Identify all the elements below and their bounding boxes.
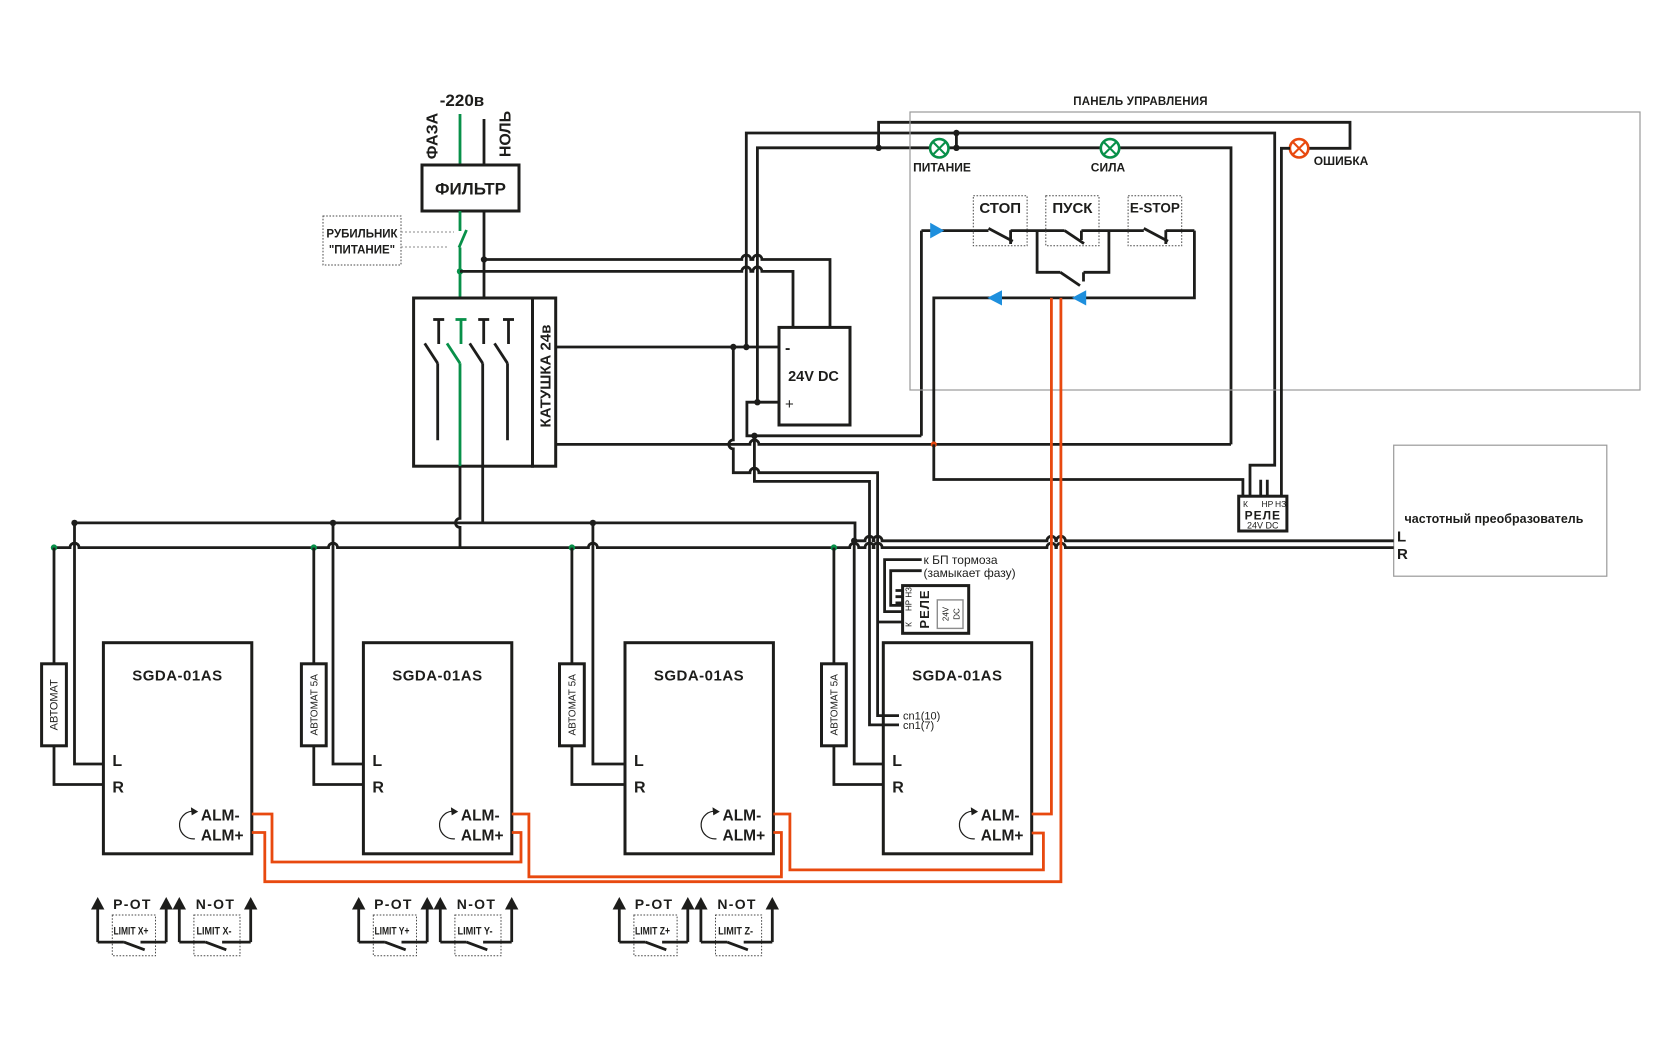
leader dotted lines to switch (401, 232, 454, 247)
wire brake relay NZ leader (885, 560, 922, 612)
circuit breaker AVTOMAT drive 1 (42, 548, 67, 746)
svg-text:РУБИЛЬНИК: РУБИЛЬНИК (326, 229, 398, 241)
wire L feed drive 4 (854, 541, 883, 764)
contact self-hold (NO) (1060, 272, 1083, 285)
arrow return 1 (blue left) (987, 290, 1002, 305)
label cn1(10) (903, 711, 940, 723)
wire phase input (459, 114, 462, 165)
svg-text:СИЛА: СИЛА (1091, 161, 1126, 175)
svg-text:SGDA-01AS: SGDA-01AS (392, 668, 482, 685)
junction minus rail B (743, 344, 749, 350)
node FAZA label (425, 112, 442, 159)
svg-text:R: R (372, 780, 384, 797)
junction minus rail A (730, 344, 736, 350)
filter box FILTR (422, 165, 519, 211)
contactor pole 3 (470, 320, 490, 467)
wire relay NZ to error lamp (1281, 148, 1290, 496)
ALM wire drive1- to drive2+ (252, 814, 521, 862)
arrow return 2 (blue left) (1072, 290, 1086, 305)
node NOL label (498, 111, 515, 157)
bus R (phase) (54, 543, 1394, 548)
svg-text:N-OT: N-OT (717, 896, 756, 912)
svg-text:SGDA-01AS: SGDA-01AS (912, 668, 1002, 685)
label cn1(7) (903, 720, 934, 732)
wire line A (error lamp loop) (879, 122, 1350, 148)
wire DC plus loop to chain feed (747, 402, 922, 436)
limit switch LIMIT Z- (694, 896, 779, 956)
svg-text:P-OT: P-OT (113, 896, 152, 912)
wire chain main line (921, 229, 988, 232)
svg-text:АВТОМАТ 5А: АВТОМАТ 5А (830, 674, 841, 736)
wire neutral through filter down (483, 211, 486, 298)
svg-text:LIMIT Z-: LIMIT Z- (718, 926, 753, 938)
wire cn1(7) (plus to drive4) (754, 436, 899, 725)
contactor pole 2 (447, 320, 467, 467)
svg-text:DC: DC (953, 608, 962, 620)
servo drive SGDA-01AS #1 (103, 643, 251, 854)
control panel border (910, 112, 1640, 390)
svg-text:ALM+: ALM+ (981, 828, 1024, 845)
svg-text:R: R (112, 780, 124, 797)
ALM wire drive3- to drive4+ (773, 814, 1043, 870)
svg-text:ОШИБКА: ОШИБКА (1314, 154, 1369, 168)
junction B link (953, 130, 959, 136)
label -220v (440, 91, 484, 110)
svg-text:L: L (372, 753, 382, 770)
svg-text:LIMIT X+: LIMIT X+ (113, 926, 148, 938)
svg-text:НР НЗ: НР НЗ (905, 587, 914, 611)
junction phase (green) (457, 268, 463, 274)
button E-STOP box (1128, 196, 1182, 246)
limit switch LIMIT X+ (91, 896, 173, 956)
wire to control chain (vertical feed) (920, 231, 923, 436)
circuit breaker AVTOMAT drive 4 (822, 548, 847, 746)
svg-text:НОЛЬ: НОЛЬ (498, 111, 515, 157)
ALM wire drive2- to drive3+ (512, 814, 782, 877)
wire contactor coil to line C (556, 440, 1231, 445)
wire phase below contactor to bus2 (456, 466, 461, 547)
panel title (1073, 96, 1207, 108)
svg-text:E-STOP: E-STOP (1130, 201, 1180, 216)
junction neutral (481, 256, 487, 262)
svg-text:LIMIT X-: LIMIT X- (197, 926, 232, 938)
indicator lamp PITANIE (930, 139, 948, 157)
wire neutral below contactor to bus1 (481, 466, 484, 523)
label PITANIE (913, 161, 971, 175)
contactor pole 4 (495, 320, 515, 441)
brake relay box (vertical) (903, 586, 969, 634)
svg-text:СТОП: СТОП (979, 200, 1021, 217)
svg-text:ALM-: ALM- (201, 808, 240, 825)
frequency converter box (1394, 445, 1607, 576)
svg-text:АВТОМАТ: АВТОМАТ (49, 679, 61, 730)
ALM wire drive1+ to panel (bottom bus) (252, 298, 1061, 882)
svg-text:АВТОМАТ 5А: АВТОМАТ 5А (310, 674, 321, 736)
svg-text:+: + (785, 396, 794, 413)
junction coil/chain (red) (931, 441, 937, 447)
svg-text:L: L (892, 753, 902, 770)
wire phase to PSU top (460, 267, 793, 328)
svg-text:LIMIT Z+: LIMIT Z+ (635, 926, 670, 938)
wire R feed drive 4 (834, 746, 883, 785)
indicator lamp OSHIBKA (1290, 139, 1308, 157)
svg-text:РЕЛЕ: РЕЛЕ (917, 589, 932, 628)
wire neutral to PSU top (484, 255, 830, 327)
bus L (neutral) (75, 523, 1394, 541)
svg-text:НР: НР (1262, 499, 1274, 509)
svg-text:R: R (634, 780, 646, 797)
svg-text:N-OT: N-OT (457, 896, 496, 912)
svg-text:"ПИТАНИЕ": "ПИТАНИЕ" (329, 245, 395, 257)
disconnect switch blade (phase) (459, 211, 467, 298)
svg-text:(замыкает фазу): (замыкает фазу) (924, 566, 1016, 580)
svg-text:P-OT: P-OT (635, 896, 674, 912)
contactor pole 1 (425, 320, 445, 441)
wire brake relay NR leader (891, 571, 922, 606)
wire cn1(10) (minus to drive4) (729, 347, 899, 716)
wire chain return (934, 231, 1195, 445)
limit switch LIMIT Z+ (613, 896, 695, 956)
indicator lamp SILA (1101, 139, 1119, 157)
wire L feed drive 3 (593, 523, 625, 764)
arrow feed (blue right) (930, 223, 944, 239)
svg-text:R: R (892, 780, 904, 797)
svg-text:КАТУШКА 24в: КАТУШКА 24в (538, 325, 555, 428)
svg-text:P-OT: P-OT (374, 896, 413, 912)
wire neutral input (483, 119, 486, 165)
svg-text:LIMIT Y-: LIMIT Y- (458, 926, 493, 938)
wire L feed drive 1 (75, 523, 104, 764)
wire B-C link (955, 133, 958, 148)
wire relay K to cn1(10) line (878, 621, 903, 624)
brake relay left pins (896, 591, 903, 603)
svg-text:ФИЛЬТР: ФИЛЬТР (435, 180, 506, 199)
relay 24VDC box (panel) (1239, 496, 1287, 531)
svg-text:-220в: -220в (440, 91, 484, 110)
label SILA (1091, 161, 1126, 175)
junction plus at PSU (754, 399, 760, 405)
wire R feed drive 3 (572, 746, 625, 785)
junction plus rail (751, 433, 757, 439)
bus L junctions (71, 520, 77, 526)
power supply 24V DC (779, 327, 850, 425)
svg-text:ALM-: ALM- (981, 808, 1020, 825)
svg-text:SGDA-01AS: SGDA-01AS (132, 668, 222, 685)
contactor box KATUSHKA 24v (414, 298, 556, 466)
svg-text:ПАНЕЛЬ УПРАВЛЕНИЯ: ПАНЕЛЬ УПРАВЛЕНИЯ (1073, 96, 1207, 108)
svg-text:SGDA-01AS: SGDA-01AS (654, 668, 744, 685)
svg-text:ПУСК: ПУСК (1052, 200, 1093, 217)
servo drive SGDA-01AS #2 (363, 643, 511, 854)
circuit breaker AVTOMAT drive 2 (301, 548, 326, 746)
svg-text:частотный преобразователь: частотный преобразователь (1405, 512, 1584, 526)
svg-text:24V DC: 24V DC (1247, 521, 1279, 531)
svg-text:L: L (112, 753, 122, 770)
svg-text:ФАЗА: ФАЗА (425, 112, 442, 159)
ALM wire drive4- to panel (1032, 298, 1052, 814)
svg-text:ALM-: ALM- (723, 808, 762, 825)
svg-text:ALM+: ALM+ (201, 828, 244, 845)
servo drive SGDA-01AS #4 (883, 643, 1031, 854)
junction C link (953, 145, 959, 151)
svg-text:N-OT: N-OT (196, 896, 235, 912)
servo drive SGDA-01AS #3 (625, 643, 773, 854)
label k BP tormoza (924, 553, 1016, 580)
bus R junctions (green) (51, 544, 57, 550)
svg-text:24V DC: 24V DC (788, 369, 839, 385)
wire R feed drive 2 (314, 746, 364, 785)
svg-text:-: - (785, 340, 790, 357)
svg-text:ALM+: ALM+ (461, 828, 504, 845)
svg-text:L: L (1397, 529, 1406, 546)
svg-text:24V: 24V (942, 606, 951, 621)
limit switch LIMIT Y+ (352, 896, 434, 956)
wire L feed drive 2 (333, 523, 363, 764)
wire DC minus (coil/relay rail) (556, 346, 779, 349)
button PUSK box (1046, 196, 1099, 246)
svg-text:ALM-: ALM- (461, 808, 500, 825)
svg-text:cn1(7): cn1(7) (903, 720, 934, 732)
limit switch LIMIT Y- (434, 896, 519, 956)
limit switch LIMIT X- (173, 896, 258, 956)
label OSHIBKA (1314, 154, 1369, 168)
svg-text:L: L (634, 753, 644, 770)
wire self-hold branch (1037, 231, 1109, 273)
contact E-STOP (NC) (1144, 228, 1195, 244)
contact PUSK (NO) (1065, 231, 1144, 244)
wire R feed drive 1 (54, 746, 103, 785)
circuit breaker AVTOMAT drive 3 (560, 548, 585, 746)
svg-text:НЗ: НЗ (1275, 499, 1286, 509)
relay spare pins (1261, 480, 1268, 496)
svg-text:К: К (904, 622, 914, 627)
svg-text:ПИТАНИЕ: ПИТАНИЕ (913, 161, 971, 175)
junction A-C (875, 145, 881, 151)
disconnect switch label box RUBILNIK PITANIE (323, 216, 401, 265)
svg-text:ALM+: ALM+ (723, 828, 766, 845)
button STOP box (973, 196, 1027, 246)
svg-text:к БП тормоза: к БП тормоза (924, 553, 998, 567)
wire line B (relay coil line) (746, 133, 1274, 496)
svg-text:К: К (1243, 499, 1248, 509)
svg-text:R: R (1397, 546, 1408, 563)
svg-text:АВТОМАТ 5А: АВТОМАТ 5А (568, 674, 579, 736)
svg-text:LIMIT Y+: LIMIT Y+ (374, 926, 409, 938)
wire line C (lamp line) (757, 148, 1231, 445)
wire relay K branch (934, 444, 1243, 496)
contact STOP (NC) (989, 228, 1065, 244)
